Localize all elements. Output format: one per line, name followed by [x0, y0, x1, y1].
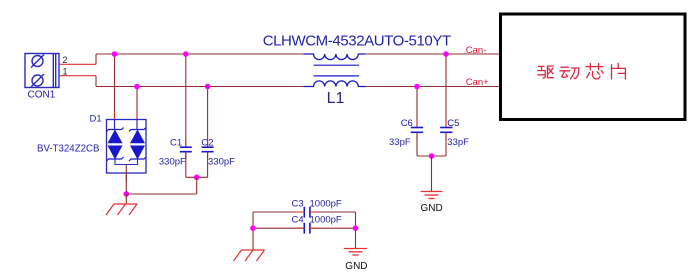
- svg-text:33pF: 33pF: [447, 137, 469, 148]
- wire D1 bottom stem: [125, 165, 127, 195]
- junction node lower bus / C6: [414, 84, 420, 90]
- svg-text:CLHWCM-4532AUTO-510YT: CLHWCM-4532AUTO-510YT: [263, 32, 451, 49]
- inductor L1 core lines: [314, 64, 360, 66]
- driver chip label 驱动芯片 (hand-drawn glyphs): [538, 63, 626, 79]
- svg-text:D1: D1: [90, 113, 102, 124]
- glyph 片: [612, 63, 626, 79]
- D1 internal join wire: [115, 159, 138, 165]
- junction node C1C2: [194, 175, 200, 181]
- junction node top bus / D1: [112, 51, 118, 57]
- capacitor C4 plates: [304, 223, 310, 234]
- wire drop top bus to C1: [185, 54, 187, 147]
- wire C5 below: [445, 132, 447, 156]
- wire top bus Can- right: [365, 53, 500, 55]
- wire ground run D1 to C1C2: [126, 193, 196, 195]
- earth ground symbol at C3C4: [234, 250, 265, 261]
- wire step down pin1 to lower bus: [95, 76, 97, 87]
- pin stub red C3 left: [297, 211, 304, 213]
- pin stub red C2 bottom: [207, 152, 209, 160]
- capacitor C6 plates: [411, 128, 423, 133]
- svg-text:1000pF: 1000pF: [310, 215, 342, 226]
- svg-text:L1: L1: [327, 90, 345, 107]
- D1 upper-left zener bar: [107, 128, 124, 132]
- wire CON1 pin1 stub: [59, 75, 96, 77]
- junction node D1 ground: [124, 191, 130, 197]
- pin stub red C3 right: [310, 211, 317, 213]
- wire C3 left: [253, 211, 304, 213]
- junction node lower bus / D1: [134, 84, 140, 90]
- pin stub red C1 bottom: [185, 152, 187, 160]
- svg-text:C6: C6: [401, 118, 413, 129]
- capacitor C1 plates: [180, 147, 192, 152]
- svg-text:C3: C3: [292, 199, 304, 210]
- wire C2 below: [207, 152, 209, 178]
- D1 lower-right diode triangle: [131, 146, 145, 159]
- wire lower bus Can+ left: [96, 86, 304, 88]
- svg-text:C5: C5: [447, 118, 459, 129]
- wire C3 right: [310, 211, 356, 213]
- wire C4 left: [253, 227, 304, 229]
- junction node top bus / C5: [443, 51, 449, 57]
- D1 upper-right diode triangle: [131, 130, 145, 143]
- inductor L1 top winding: [304, 54, 366, 60]
- wire CON1 pin2 stub: [59, 63, 96, 65]
- D1 lower-left zener bar: [107, 157, 124, 161]
- pin stub red D1 right: [136, 112, 138, 120]
- capacitor C5 plates: [440, 128, 452, 133]
- svg-text:330pF: 330pF: [208, 156, 235, 167]
- D1 lower-left diode triangle: [108, 146, 122, 159]
- wire drop lower bus to C6: [416, 87, 418, 128]
- wire C3C4 right vertical: [355, 212, 357, 249]
- wire C5C6 join: [417, 155, 446, 157]
- wire drop lower bus to D1 right: [136, 87, 138, 129]
- svg-text:1: 1: [63, 67, 68, 77]
- wire drop top bus to D1 left: [114, 54, 116, 129]
- svg-text:C2: C2: [201, 137, 213, 148]
- pin stub red C4 right: [310, 227, 317, 229]
- capacitor C2 plates: [202, 147, 214, 152]
- wire C3C4 left vertical: [252, 212, 254, 250]
- junction node C3C4 right: [353, 225, 359, 231]
- svg-text:Can+: Can+: [466, 77, 489, 88]
- driver chip box: [501, 14, 686, 120]
- D1 upper-right zener bar: [129, 128, 146, 132]
- pin stub red D1 left: [114, 112, 116, 120]
- inductor L1 bottom winding: [304, 81, 366, 87]
- svg-text:33pF: 33pF: [389, 137, 411, 148]
- svg-text:Can-: Can-: [466, 45, 487, 56]
- glyph 驱: [538, 66, 545, 78]
- svg-text:CON1: CON1: [28, 90, 56, 101]
- GND symbol at C5C6: [421, 192, 443, 199]
- svg-text:2: 2: [63, 55, 68, 65]
- GND symbol at C3C4: [344, 249, 367, 256]
- junction node lower bus / C2: [205, 84, 211, 90]
- wire C1C2 join: [186, 176, 208, 178]
- pin stub red C4 left: [297, 227, 304, 229]
- pin stub red C6 bottom: [416, 133, 418, 141]
- pin stub red D1 bottom: [125, 173, 127, 181]
- wire C4 right: [310, 227, 356, 229]
- connector CON1 body: [25, 54, 59, 88]
- wire C1C2 to ground run: [196, 177, 198, 194]
- pin stub red C1 top: [185, 140, 187, 148]
- D1 lower-right zener bar: [129, 157, 146, 161]
- glyph 动: [560, 67, 570, 77]
- pin stub red C5 top: [445, 120, 447, 127]
- wire step up pin2 to top bus: [95, 54, 97, 64]
- diode array D1 box: [107, 120, 147, 174]
- wire drop lower bus to C2: [207, 87, 209, 148]
- wire C6 below: [416, 132, 418, 156]
- svg-text:330pF: 330pF: [159, 156, 186, 167]
- svg-text:C4: C4: [292, 215, 304, 226]
- glyph 芯: [586, 63, 603, 69]
- pin stub red C6 top: [416, 120, 418, 127]
- junction node C3C4 left: [250, 225, 256, 231]
- svg-text:BV-T324Z2CB: BV-T324Z2CB: [37, 144, 99, 155]
- svg-text:C1: C1: [170, 137, 182, 148]
- capacitor C3 plates: [304, 207, 310, 218]
- wire GND stem C5C6: [431, 156, 433, 192]
- D1 upper-left diode triangle: [108, 130, 122, 143]
- wire top bus Can- left: [96, 53, 304, 55]
- wire drop top bus to C5: [445, 54, 447, 128]
- svg-text:GND: GND: [421, 203, 443, 214]
- svg-text:1000pF: 1000pF: [310, 199, 342, 210]
- pin stub red C2 top: [207, 140, 209, 148]
- pin stub blue D1 right inside: [136, 120, 138, 130]
- pin stub red C5 bottom: [445, 133, 447, 141]
- junction node C5C6: [429, 153, 435, 159]
- wire lower bus Can+ right: [365, 86, 500, 88]
- junction node top bus / C1: [183, 51, 189, 57]
- earth ground stem at D1: [125, 194, 127, 204]
- pin stub blue D1 left inside: [114, 120, 116, 130]
- wire C1 below: [185, 152, 187, 178]
- svg-text:GND: GND: [345, 261, 367, 272]
- earth ground symbol at D1: [106, 204, 137, 215]
